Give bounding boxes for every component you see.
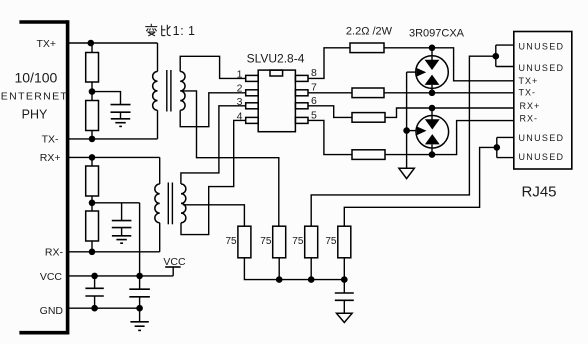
wire C1 to ground <box>120 112 122 119</box>
node VCC / C4 <box>136 273 143 280</box>
svg-text:UNUSED: UNUSED <box>519 152 565 162</box>
wire R3 bottom stem <box>91 196 93 203</box>
gas discharge tube D2 (3R097CXA) <box>416 108 449 155</box>
wire termination common rail <box>244 258 344 280</box>
wire T1 secondary top to U1 pin1 <box>180 56 246 78</box>
resistor R4 (RX bias lower) <box>86 211 99 241</box>
10/100 Ethernet PHY block border (thick C-shape) <box>19 20 69 334</box>
svg-text:5: 5 <box>311 109 317 121</box>
wire C2 top stem <box>121 203 123 221</box>
wire C2 to ground <box>121 228 123 236</box>
U1 pin 7 pad <box>295 90 308 96</box>
transformer T1 core <box>167 70 171 112</box>
node RX+ / R3 junction <box>89 154 96 161</box>
U1 pin 8 pad <box>295 75 308 81</box>
node unused pair 7-8 <box>494 144 501 151</box>
wire R1 bottom stem <box>91 82 93 92</box>
U1 pin 6 pad <box>295 103 308 109</box>
transformer T1 secondary winding <box>180 72 185 111</box>
node GND / C4 <box>136 305 143 312</box>
capacitor C2 (RX mid) <box>112 221 132 228</box>
wire C5 to ground <box>343 300 345 313</box>
wire TX+ row from PHY to T1 primary top <box>68 42 158 44</box>
svg-text:UNUSED: UNUSED <box>519 42 565 52</box>
U1 pin 2 pad <box>246 90 259 96</box>
U1 pin 5 pad <box>295 117 308 123</box>
wire R4 top stem <box>91 203 93 211</box>
wire C4 top stem <box>139 276 141 289</box>
svg-text:1: 1 <box>237 68 243 80</box>
wire VCC row <box>68 275 173 277</box>
resistor R10 2.2 ohm (TX-) <box>352 88 384 98</box>
resistor R3 (RX bias upper) <box>86 166 99 196</box>
wire RX+ row from PHY to T2 primary top <box>68 156 160 158</box>
wire T1 primary top stem <box>157 43 159 72</box>
wire unused pair 1-2 to R7 (75 ohm) <box>311 56 496 226</box>
svg-text:TX+: TX+ <box>519 76 539 86</box>
wire unused pair 7-8 bracket <box>496 137 498 157</box>
wire RJ45 pin7 stub <box>497 136 514 138</box>
svg-text:8: 8 <box>311 67 317 79</box>
wire U1 pin5 to series resistor <box>308 120 352 154</box>
wire R4 bottom stem <box>91 241 93 252</box>
resistor R12 2.2 ohm (RX-) <box>352 150 385 160</box>
capacitor C4 (VCC decoupling 2) <box>129 289 150 297</box>
ground (triangle) below TVS line <box>399 168 414 178</box>
wire RX+ row to RJ45 pin5 <box>385 108 514 117</box>
resistor R6 75 ohm <box>273 226 286 258</box>
wire U1 pin4 to T2 secondary bottom <box>181 120 246 234</box>
svg-text:75: 75 <box>225 236 237 247</box>
wire RX mid to VCC drop <box>92 202 140 204</box>
wire unused pair 1-2 bracket <box>495 45 497 66</box>
node TX+ / R1 junction <box>88 40 95 47</box>
node ground line / D2 electrode <box>403 127 410 134</box>
wire R1 top stem <box>91 43 93 53</box>
node GND / C3 <box>91 305 98 312</box>
U1 pin 3 pad <box>246 103 259 109</box>
resistor R7 75 ohm <box>305 226 318 258</box>
wire U1 pin7 to series resistor <box>308 92 352 94</box>
ground (triangle) below C5 <box>337 313 353 322</box>
svg-text:PHY: PHY <box>22 108 48 122</box>
capacitor C1 (TX mid) <box>111 105 131 113</box>
wire R2 bottom stem <box>91 131 93 139</box>
wire C3 top stem <box>94 276 96 288</box>
power rail VCC symbol <box>165 267 180 276</box>
wire U1 pin8 up to series resistor row <box>308 48 350 79</box>
ground (3-bar) below C2 <box>112 236 131 243</box>
node RX- junction <box>89 249 96 256</box>
wire R8 bottom stem <box>343 258 345 280</box>
ground (3-bar) below GND row <box>130 322 148 331</box>
ground (3-bar) below C1 <box>111 119 130 127</box>
wire RJ45 pin2 stub <box>496 66 514 68</box>
wire T1 secondary bottom to U1 pin2 <box>180 93 246 127</box>
wire U1 pin6 to series resistor <box>308 106 352 118</box>
resistor R1 (TX bias upper) <box>86 53 99 83</box>
svg-text::: : <box>180 24 183 38</box>
svg-text:10/100: 10/100 <box>14 70 57 86</box>
wire RJ45 pin8 stub <box>497 157 514 159</box>
svg-text:TX-: TX- <box>42 134 59 146</box>
svg-text:75: 75 <box>260 236 272 247</box>
wire D2 ground electrode <box>407 130 417 132</box>
svg-text:GND: GND <box>40 305 64 317</box>
wire T1 center tap to R6 (75 ohm) <box>182 91 279 226</box>
node TX- junction <box>89 136 96 143</box>
op-amp U1 SLVU2.8-4 body <box>258 70 295 132</box>
svg-text:VCC: VCC <box>40 271 63 283</box>
svg-text:UNUSED: UNUSED <box>519 133 565 143</box>
U1 pin 1 pad <box>246 75 259 81</box>
wire C3 bottom stem <box>94 296 96 308</box>
label 变比1: 1 (turns ratio) : hand-drawn CJK glyphs <box>145 24 170 36</box>
capacitor C5 (termination) <box>335 293 354 300</box>
svg-text:RX-: RX- <box>45 247 64 259</box>
wire RX- row from PHY to T2 primary bottom <box>68 251 160 253</box>
capacitor C3 (VCC decoupling 1) <box>85 288 103 296</box>
resistor R9 2.2 ohm (TX+) <box>350 43 384 53</box>
wire T2 primary bottom stem <box>159 223 161 252</box>
wire unused pair 7-8 to R8 (75 ohm) <box>344 147 497 226</box>
RJ45 connector box <box>514 32 572 170</box>
transformer T2 core <box>168 183 172 225</box>
wire rail to C5 <box>343 280 345 293</box>
wire RX mid node down to VCC row <box>139 203 141 276</box>
svg-text:RX+: RX+ <box>40 152 61 164</box>
wire TX+ row to RJ45 pin3 <box>384 48 514 81</box>
wire R2 top stem <box>91 92 93 101</box>
svg-text:75: 75 <box>325 236 337 247</box>
transformer T1 primary winding <box>153 72 158 111</box>
wire C4 bottom stem <box>139 297 141 308</box>
U1 orientation notch <box>270 70 283 76</box>
wire TX- row to RJ45 pin4 <box>384 92 514 94</box>
svg-text:SLVU2.8-4: SLVU2.8-4 <box>247 52 305 66</box>
wire R3 top stem <box>91 157 93 166</box>
svg-text:4: 4 <box>237 110 243 122</box>
gas discharge tube D1 (3R097CXA) <box>416 48 449 93</box>
wire TVS common ground line <box>406 72 408 168</box>
svg-text:VCC: VCC <box>163 256 186 268</box>
node TVS D2 top tap <box>429 105 436 112</box>
resistor R5 75 ohm <box>238 226 251 258</box>
node unused pair 1-2 <box>493 53 500 60</box>
svg-text:ENTERNET: ENTERNET <box>1 91 68 103</box>
svg-text:3: 3 <box>237 96 243 108</box>
wire R7 bottom stem <box>310 258 312 280</box>
svg-text:TX+: TX+ <box>36 38 56 50</box>
svg-text:RJ45: RJ45 <box>521 184 556 201</box>
transformer T2 primary winding <box>155 184 160 223</box>
resistor R2 (TX bias lower) <box>86 101 99 131</box>
wire U1 pin3 to T2 secondary top <box>181 106 246 184</box>
svg-text:2.2Ω /2W: 2.2Ω /2W <box>346 26 393 38</box>
wire D1 ground electrode <box>407 71 417 73</box>
wire R6 bottom stem <box>278 258 280 280</box>
svg-text:TX-: TX- <box>519 87 537 97</box>
node rail / R8 / C5 <box>341 276 348 283</box>
node TVS D1 top tap <box>429 45 436 52</box>
wire T2 center tap to R5 (75 ohm) <box>183 205 245 226</box>
svg-text:2: 2 <box>237 82 243 94</box>
wire TX- row from PHY to T1 primary bottom <box>68 138 158 140</box>
node RX mid junction <box>89 200 96 207</box>
wire RJ45 pin1 stub <box>496 44 514 46</box>
wire TX mid to C1 <box>92 92 121 105</box>
U1 pin 4 pad <box>246 117 259 123</box>
wire GND to earth <box>139 308 141 322</box>
svg-text:1: 1 <box>188 24 195 38</box>
node TX mid junction <box>89 88 96 95</box>
svg-text:3R097CXA: 3R097CXA <box>409 28 465 40</box>
wire T2 primary top stem <box>159 157 161 184</box>
svg-text:RX-: RX- <box>520 114 539 124</box>
node TVS D2 bottom tap <box>429 151 436 158</box>
wire T1 primary bottom stem <box>157 110 159 139</box>
wire RX- row to RJ45 pin6 <box>385 121 514 155</box>
node rail / R7 <box>308 276 315 283</box>
resistor R11 2.2 ohm (RX+) <box>352 113 385 123</box>
svg-text:RX+: RX+ <box>520 101 541 111</box>
svg-text:1: 1 <box>173 24 180 38</box>
svg-text:7: 7 <box>311 81 317 93</box>
svg-text:6: 6 <box>311 95 317 107</box>
wire GND row <box>68 307 140 309</box>
svg-text:UNUSED: UNUSED <box>519 63 565 73</box>
resistor R8 75 ohm <box>338 226 351 258</box>
node rail / R6 <box>276 276 283 283</box>
svg-text:75: 75 <box>292 236 304 247</box>
transformer T2 secondary winding <box>181 184 186 223</box>
node VCC / C3 <box>91 273 98 280</box>
node TVS D1 bottom tap <box>429 90 436 97</box>
